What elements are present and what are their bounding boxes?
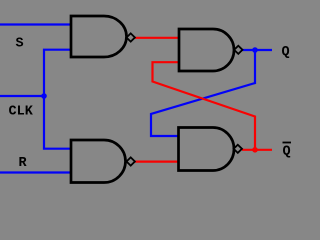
wire Q-bar output	[242, 149, 272, 151]
nand gate U1 bubble	[127, 33, 135, 41]
nand gate U3 bubble	[127, 157, 135, 165]
wire U1 output to U2 input (red)	[134, 37, 179, 39]
svg-text:Q: Q	[283, 145, 291, 160]
svg-text:R: R	[19, 156, 28, 171]
wire CLK vertical branch	[44, 50, 71, 149]
wire Q-bar feedback to U2 (red)	[153, 62, 256, 150]
nand gate U2 bubble	[234, 46, 242, 54]
node CLK junction	[41, 93, 47, 99]
nand gate U4 bubble	[234, 145, 242, 153]
node Q junction	[252, 47, 258, 53]
nand gate U3 body	[71, 140, 126, 183]
label Q-bar overline	[283, 142, 292, 144]
wire S input	[0, 23, 71, 25]
wire Q output	[243, 49, 273, 51]
wire CLK input	[0, 95, 45, 97]
wire R input	[0, 171, 72, 173]
node Q-bar junction	[252, 147, 258, 153]
wire Q feedback to U4 (blue)	[151, 50, 255, 136]
nand gate U2 body	[179, 29, 234, 71]
svg-text:S: S	[16, 37, 24, 52]
svg-text:CLK: CLK	[9, 105, 34, 120]
wire U3 output to U4 input (red)	[134, 161, 179, 163]
nand gate U4 body	[179, 128, 235, 171]
nand gate U1 body	[71, 16, 127, 57]
svg-text:Q: Q	[282, 45, 290, 60]
